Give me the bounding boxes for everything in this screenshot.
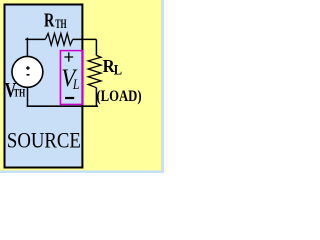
svg-text:L: L bbox=[72, 77, 80, 93]
svg-text:TH: TH bbox=[55, 16, 66, 31]
svg-text:TH: TH bbox=[14, 88, 26, 100]
wire: bottom horizontal bbox=[27, 105, 98, 107]
yellow page background bbox=[0, 0, 164, 173]
wire: top horizontal with resistor RTH zigzag bbox=[25, 38, 96, 40]
wire: circle bottom stub bbox=[27, 87, 29, 106]
magenta VL box bbox=[60, 51, 82, 105]
svg-text:SOURCE: SOURCE bbox=[7, 127, 81, 152]
resistor RL vertical zigzag bbox=[88, 55, 101, 87]
svg-text:L: L bbox=[114, 63, 123, 79]
plus mark inside circle bbox=[26, 66, 30, 70]
svg-text:(LOAD): (LOAD) bbox=[96, 88, 141, 105]
minus sign in VL box bbox=[65, 97, 74, 99]
wire: right vertical from top wire to RL bbox=[95, 39, 97, 55]
wire: RL bottom lead bbox=[95, 88, 97, 107]
plus sign in VL box bbox=[64, 52, 73, 61]
minus mark inside circle bbox=[27, 74, 30, 76]
resistor RTH zigzag bbox=[45, 33, 72, 45]
right edge blue strip bbox=[161, 0, 164, 173]
voltage source circle VTH bbox=[12, 56, 43, 87]
bottom edge blue strip bbox=[0, 170, 164, 173]
svg-text:R: R bbox=[44, 10, 55, 32]
wire: stub from junction down to circle top bbox=[26, 38, 28, 57]
SOURCE box bbox=[5, 5, 83, 168]
